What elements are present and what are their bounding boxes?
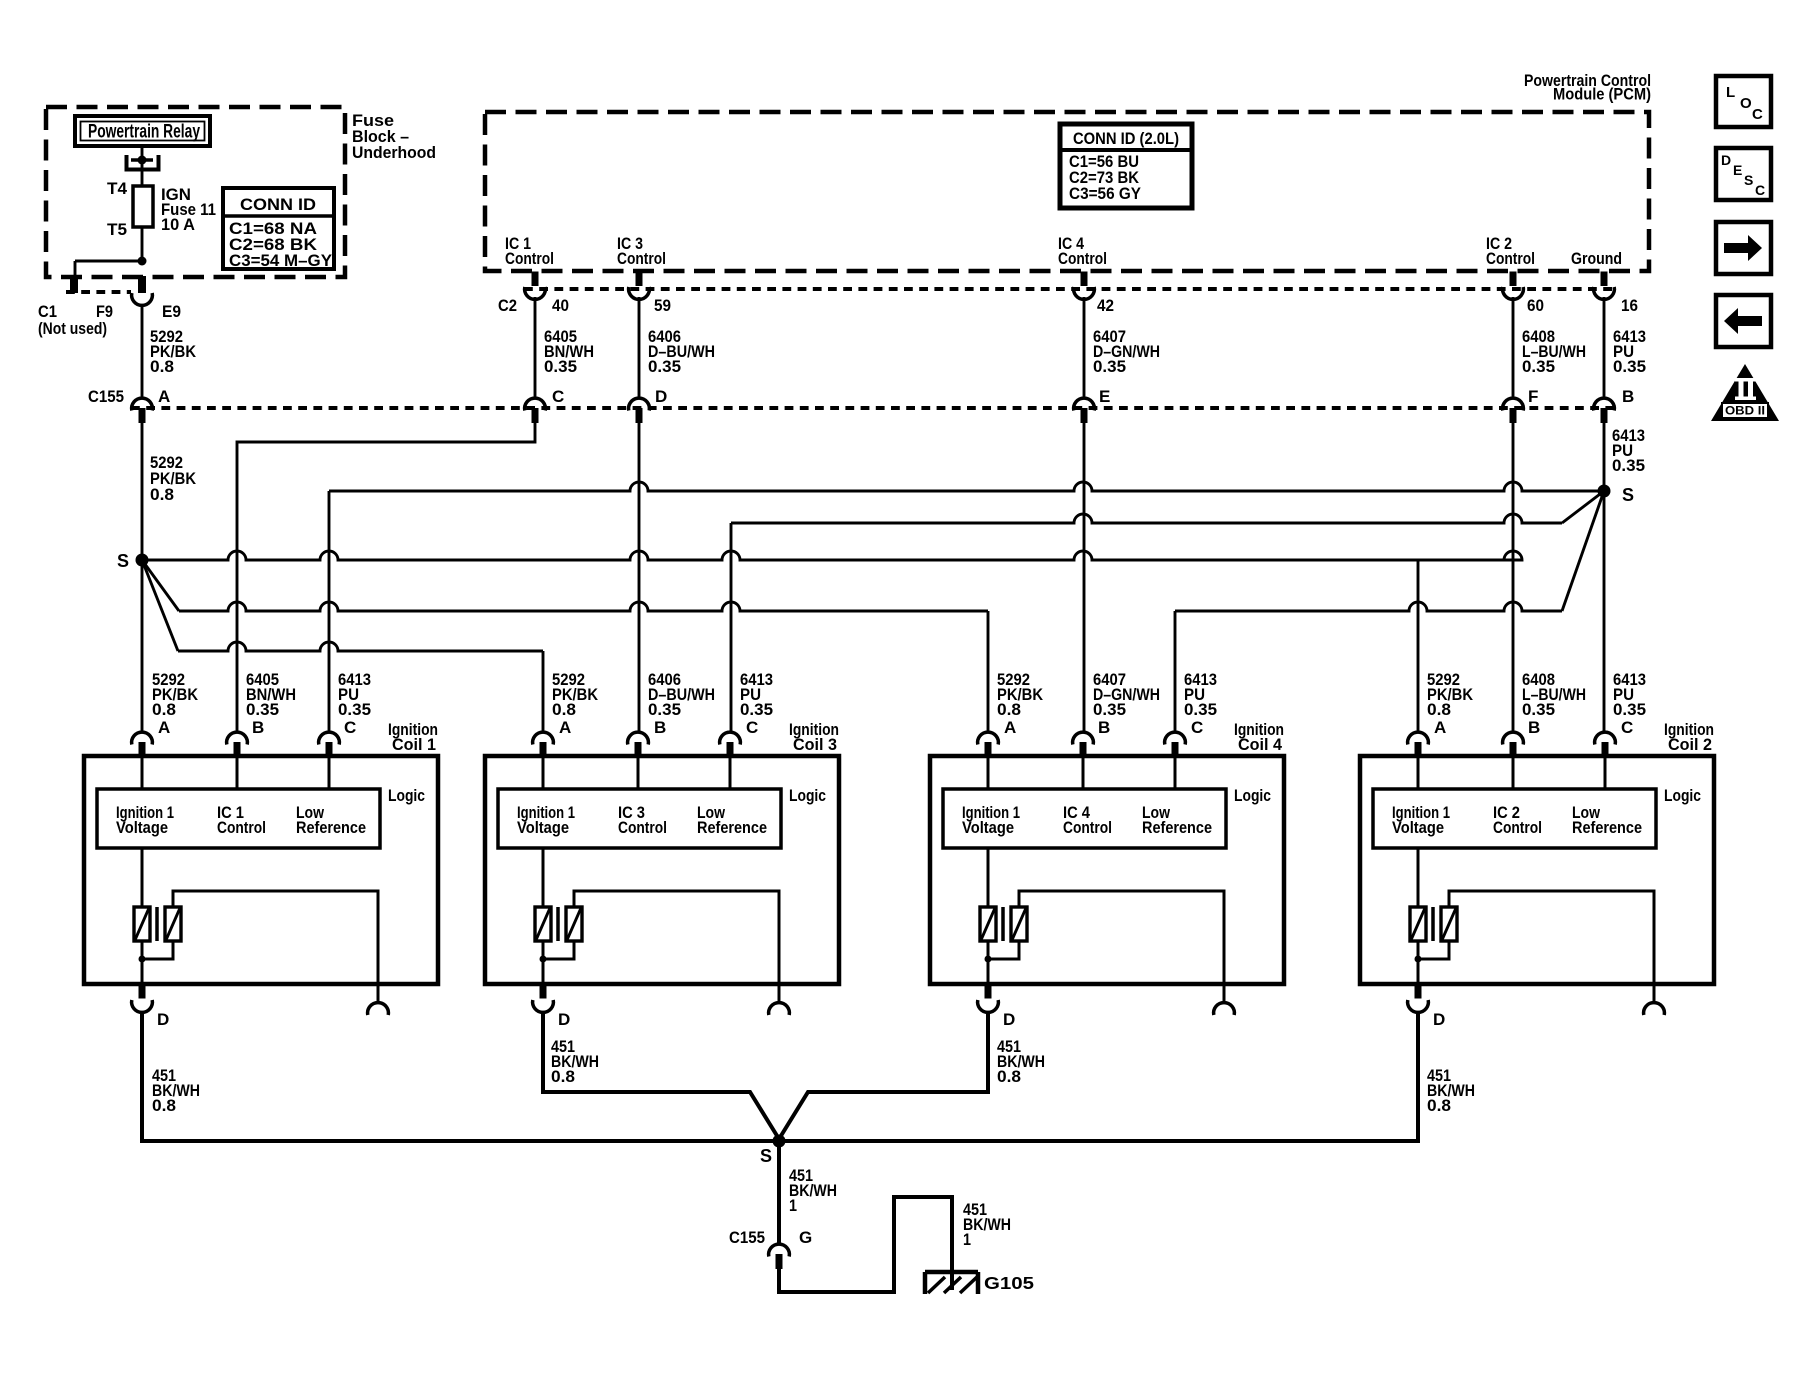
svg-text:Logic: Logic: [388, 786, 425, 805]
svg-text:C155: C155: [729, 1228, 765, 1247]
svg-text:Control: Control: [1058, 249, 1107, 268]
svg-text:0.8: 0.8: [150, 485, 174, 504]
svg-text:C2: C2: [498, 296, 517, 315]
svg-text:E: E: [1733, 162, 1742, 178]
svg-text:C: C: [1621, 718, 1633, 737]
svg-text:C155: C155: [88, 387, 124, 406]
svg-text:42: 42: [1097, 296, 1114, 315]
svg-text:0.8: 0.8: [997, 1067, 1021, 1086]
svg-text:Voltage: Voltage: [517, 818, 569, 837]
svg-text:0.35: 0.35: [338, 700, 371, 719]
svg-text:0.35: 0.35: [1613, 700, 1646, 719]
svg-text:D: D: [157, 1010, 169, 1029]
svg-text:0.35: 0.35: [1093, 357, 1126, 376]
svg-text:B: B: [252, 718, 264, 737]
svg-text:0.35: 0.35: [648, 700, 681, 719]
svg-text:G: G: [799, 1228, 812, 1247]
svg-text:Reference: Reference: [697, 818, 767, 837]
svg-text:Powertrain Relay: Powertrain Relay: [88, 122, 200, 143]
svg-text:O: O: [1740, 95, 1752, 112]
svg-text:10 A: 10 A: [161, 215, 195, 234]
svg-text:F9: F9: [96, 302, 113, 321]
svg-text:C: C: [1755, 182, 1765, 198]
svg-text:Coil 4: Coil 4: [1238, 735, 1283, 754]
svg-text:B: B: [654, 718, 666, 737]
svg-text:Logic: Logic: [1234, 786, 1271, 805]
svg-text:D: D: [558, 1010, 570, 1029]
svg-text:Voltage: Voltage: [962, 818, 1014, 837]
svg-text:B: B: [1098, 718, 1110, 737]
svg-text:D: D: [1003, 1010, 1015, 1029]
svg-text:G105: G105: [984, 1273, 1034, 1293]
svg-text:Module (PCM): Module (PCM): [1553, 86, 1651, 104]
svg-text:CONN ID: CONN ID: [240, 195, 316, 214]
svg-text:C: C: [1752, 106, 1763, 123]
svg-text:Logic: Logic: [789, 786, 826, 805]
svg-text:1: 1: [789, 1196, 797, 1215]
svg-text:C: C: [344, 718, 356, 737]
svg-text:D: D: [1433, 1010, 1445, 1029]
svg-text:Ground: Ground: [1571, 249, 1622, 268]
svg-text:S: S: [1622, 485, 1634, 505]
svg-text:0.8: 0.8: [150, 357, 174, 376]
svg-text:0.35: 0.35: [648, 357, 681, 376]
svg-text:0.35: 0.35: [1613, 357, 1646, 376]
svg-text:0.8: 0.8: [997, 700, 1021, 719]
svg-text:Control: Control: [505, 249, 554, 268]
svg-text:0.8: 0.8: [552, 700, 576, 719]
svg-text:16: 16: [1621, 296, 1638, 315]
svg-text:0.35: 0.35: [1612, 456, 1645, 475]
svg-text:0.35: 0.35: [544, 357, 577, 376]
svg-text:C3=54 M–GY: C3=54 M–GY: [229, 251, 333, 270]
svg-text:0.8: 0.8: [1427, 1096, 1451, 1115]
svg-text:0.8: 0.8: [152, 1096, 176, 1115]
svg-text:S: S: [117, 551, 129, 571]
svg-text:C: C: [552, 387, 564, 406]
svg-text:0.8: 0.8: [152, 700, 176, 719]
svg-text:E: E: [1099, 387, 1110, 406]
svg-text:0.35: 0.35: [1522, 700, 1555, 719]
svg-text:1: 1: [963, 1230, 971, 1249]
svg-text:Coil 2: Coil 2: [1668, 735, 1712, 754]
svg-text:0.35: 0.35: [1093, 700, 1126, 719]
svg-text:Control: Control: [1493, 818, 1542, 837]
svg-text:B: B: [1622, 387, 1634, 406]
svg-text:A: A: [158, 387, 170, 406]
svg-text:Coil 3: Coil 3: [793, 735, 837, 754]
svg-text:F: F: [1528, 387, 1538, 406]
svg-text:B: B: [1528, 718, 1540, 737]
svg-text:59: 59: [654, 296, 671, 315]
svg-text:Control: Control: [1063, 818, 1112, 837]
svg-text:A: A: [1004, 718, 1016, 737]
svg-text:S: S: [1744, 172, 1753, 188]
svg-text:0.8: 0.8: [551, 1067, 575, 1086]
svg-text:T5: T5: [107, 220, 127, 239]
svg-text:0.35: 0.35: [740, 700, 773, 719]
svg-text:A: A: [559, 718, 571, 737]
svg-text:D: D: [1721, 152, 1731, 168]
svg-text:T4: T4: [107, 179, 128, 198]
svg-text:0.35: 0.35: [1522, 357, 1555, 376]
svg-text:A: A: [158, 718, 170, 737]
svg-text:Control: Control: [618, 818, 667, 837]
svg-text:Logic: Logic: [1664, 786, 1701, 805]
svg-text:D: D: [655, 387, 667, 406]
svg-text:(Not used): (Not used): [38, 319, 107, 338]
svg-text:40: 40: [552, 296, 569, 315]
svg-text:Voltage: Voltage: [1392, 818, 1444, 837]
svg-text:Underhood: Underhood: [352, 143, 436, 162]
svg-text:0.35: 0.35: [1184, 700, 1217, 719]
svg-text:Control: Control: [1486, 249, 1535, 268]
svg-text:CONN ID (2.0L): CONN ID (2.0L): [1073, 129, 1179, 148]
svg-text:0.8: 0.8: [1427, 700, 1451, 719]
svg-text:E9: E9: [162, 302, 181, 321]
svg-text:Control: Control: [617, 249, 666, 268]
svg-text:S: S: [760, 1146, 772, 1166]
svg-text:OBD II: OBD II: [1725, 406, 1765, 418]
svg-text:C: C: [1191, 718, 1203, 737]
svg-text:0.35: 0.35: [246, 700, 279, 719]
svg-text:C: C: [746, 718, 758, 737]
svg-text:Coil 1: Coil 1: [392, 735, 436, 754]
svg-text:A: A: [1434, 718, 1446, 737]
svg-text:Reference: Reference: [1142, 818, 1212, 837]
svg-text:60: 60: [1527, 296, 1544, 315]
svg-text:Reference: Reference: [296, 818, 366, 837]
svg-text:Control: Control: [217, 818, 266, 837]
svg-text:C3=56 GY: C3=56 GY: [1069, 184, 1142, 203]
svg-text:Reference: Reference: [1572, 818, 1642, 837]
svg-text:L: L: [1726, 84, 1735, 101]
svg-text:Voltage: Voltage: [116, 818, 168, 837]
